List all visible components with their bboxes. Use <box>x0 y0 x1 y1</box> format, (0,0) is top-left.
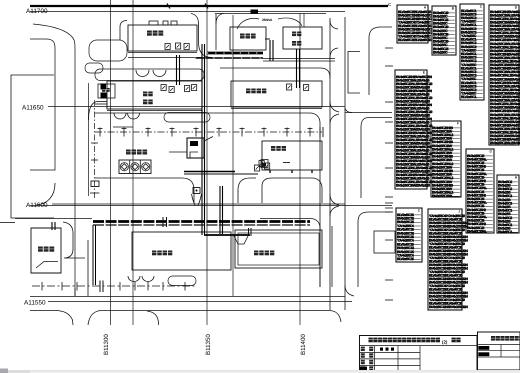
svg-text:BV-4x6SC2: BV-4x6SC2 <box>498 230 512 234</box>
street x88 middle south <box>63 222 88 296</box>
svg-text:J: J <box>458 209 460 213</box>
cooling tower <box>119 160 151 174</box>
south dash utility y286 <box>32 281 195 293</box>
heavy line y235 on baozhuang <box>204 228 251 236</box>
left callout bracket <box>11 75 54 218</box>
label lvgai changfang <box>126 150 147 155</box>
central block west edge x88 <box>88 83 90 196</box>
grid line A11550 <box>24 300 352 307</box>
east blocks <box>345 27 392 287</box>
south roads <box>30 297 345 326</box>
grid line x133 <box>132 0 134 325</box>
building baozhuang workshop <box>132 232 231 270</box>
svg-text:BLV-2x4SC15BLV-2x4SC15: BLV-2x4SC15BLV-2x4SC15 <box>398 38 431 42</box>
right callout bracket <box>348 52 360 94</box>
road line y218 east <box>260 219 332 288</box>
transformer box <box>169 137 213 159</box>
svg-text:BV-3x2.5SC: BV-3x2.5SC <box>433 50 448 54</box>
road west flare at A11600 <box>36 183 75 296</box>
table J at 428,209 <box>428 209 468 310</box>
svg-text:BV-5x16SC32N3BV-5x16SC32N: BV-5x16SC32N3BV-5x16SC32N <box>429 305 468 309</box>
road under zhongzhuanku <box>128 57 202 59</box>
duct ticks x163 <box>163 217 167 227</box>
heavy cable vertical x271 <box>265 39 273 61</box>
svg-text:BV-2x2.5SC15WEBV-2x2.5S: BV-2x2.5SC15WEBV-2x2.5S <box>396 183 431 187</box>
annex road lines west <box>89 102 134 128</box>
table E at 395,70 <box>395 70 433 189</box>
label A11700 <box>26 8 48 15</box>
utility line y132 with ticks <box>95 127 323 137</box>
road line y205 <box>30 205 392 207</box>
road corner west of zhongzhuanku <box>120 21 127 41</box>
east road outer x345 <box>344 17 346 310</box>
hash marks on top line <box>167 4 258 15</box>
bottom scrollbar <box>0 369 520 373</box>
road west inner edge <box>30 39 55 170</box>
heavy cable vertical x202 main <box>202 44 205 235</box>
svg-text:B11400: B11400 <box>300 334 307 355</box>
heavy cable vertical x221 <box>220 186 223 234</box>
scallops south of baozhuang <box>128 276 196 286</box>
east road inner x330 <box>329 18 331 310</box>
pole with flare <box>192 188 202 206</box>
road west outer edge <box>33 24 75 296</box>
building qingshaoxian <box>230 27 266 50</box>
heavy line y172 <box>184 172 258 175</box>
svg-text:BLV-2x4SC1: BLV-2x4SC1 <box>461 95 477 99</box>
building small east <box>374 231 395 253</box>
svg-text:F: F <box>457 121 459 125</box>
svg-text:BLV-2x4SC15: BLV-2x4SC15 <box>397 257 414 261</box>
building lianhe zhuzao <box>107 81 202 111</box>
intersection arcs east road <box>330 20 354 296</box>
grid line A11650 <box>22 105 345 112</box>
distribution boxes <box>101 43 309 171</box>
title block right <box>478 332 520 370</box>
building shuliao workshop <box>235 230 322 268</box>
title block main <box>360 336 478 372</box>
svg-text:250kVA: 250kVA <box>262 18 273 22</box>
leaders 250kVA <box>237 13 304 29</box>
table C at 460,4 <box>460 4 484 100</box>
grid line B11400 <box>300 13 307 355</box>
svg-text:B11350: B11350 <box>205 334 212 355</box>
road row y113 <box>95 113 320 288</box>
table D at 489,5 <box>489 5 520 145</box>
building bianpeidian <box>283 27 322 49</box>
heavy pair x94 south <box>93 225 96 285</box>
building zhongzhuanku <box>128 21 197 53</box>
leader dashes left of tables <box>385 48 393 300</box>
road row y178 block outlines <box>95 178 322 203</box>
vertical street x198-216 top <box>191 14 224 58</box>
building dashiku <box>31 222 61 273</box>
grid line B11300 <box>103 0 111 355</box>
grid line A11600 <box>26 202 345 209</box>
table F at 431,121 <box>431 121 461 198</box>
svg-text:E: E <box>423 70 425 74</box>
svg-text:C: C <box>388 2 391 7</box>
table C at 396,208 <box>396 208 422 262</box>
street north of main block <box>95 69 204 81</box>
svg-text:BV-3x2.5SC15WL5BV-3x2.: BV-3x2.5SC15WL5BV-3x2. <box>490 141 520 145</box>
svg-text:B11300: B11300 <box>103 334 110 355</box>
table A at 397,5 <box>397 5 433 43</box>
svg-text:A11650: A11650 <box>22 105 44 112</box>
utility vertical x94 <box>90 100 100 199</box>
grid line A11700 heavy top <box>30 6 388 12</box>
building cangcheng workshop <box>220 68 330 109</box>
svg-text:A11700: A11700 <box>26 8 48 15</box>
road line y218 west <box>0 219 92 223</box>
svg-text:A11550: A11550 <box>24 300 46 307</box>
porch on baozhuang <box>234 236 248 244</box>
svg-text:(2): (2) <box>442 340 448 345</box>
table G at 466,149 <box>466 149 494 233</box>
heavy cable y53 <box>195 53 335 61</box>
vertical street x233 <box>232 15 234 296</box>
heavy dashed duct y222 <box>93 222 310 226</box>
label C top right of plan <box>388 2 391 7</box>
table H at 497,175 <box>497 175 519 234</box>
table B at 432,6 <box>432 6 456 55</box>
heavy cable vertical x298 <box>297 49 300 88</box>
parking bulb NW <box>85 40 127 73</box>
building zhongshiyan <box>261 141 322 173</box>
grid line B11350 <box>205 0 212 355</box>
heavy cable vertical x177 <box>177 55 180 85</box>
road line y13 top <box>215 13 326 15</box>
small building west <box>98 84 115 98</box>
